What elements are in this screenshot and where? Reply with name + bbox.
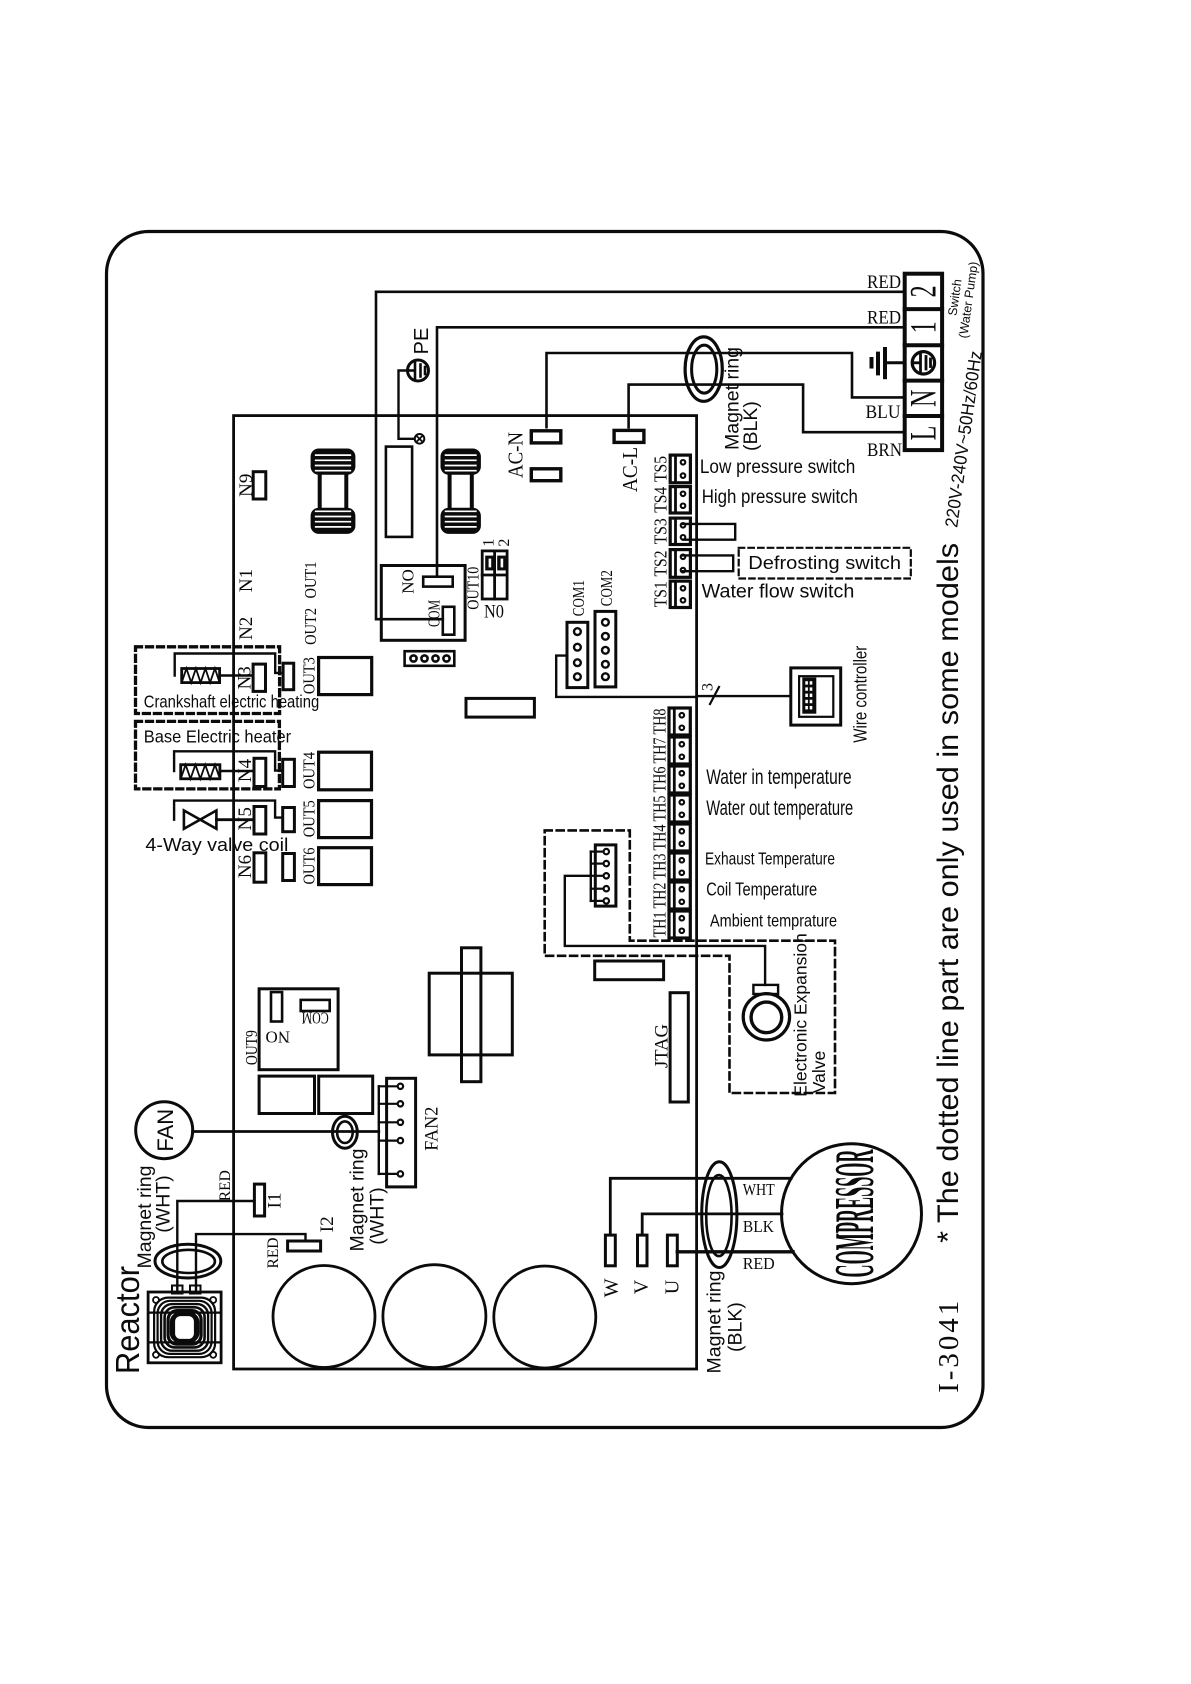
contact OUT3 [283,663,294,690]
connector N9 [253,472,266,499]
svg-text:V: V [631,1279,653,1294]
component rect C [259,1076,314,1113]
svg-text:TS1: TS1 [651,581,671,607]
contact OUT6 [283,854,295,881]
svg-text:(BLK): (BLK) [725,1302,747,1352]
svg-text:Coil Temperature: Coil Temperature [706,879,817,900]
compressor circle [782,1144,922,1284]
jumper block [482,551,507,599]
5-pin leads [591,849,609,904]
wire valve loop OUT5 [174,801,283,820]
wire heater to N4 [220,770,254,772]
wire to wire controller [697,695,791,697]
relay OUT5 [319,801,372,838]
border frame [107,232,984,1428]
PCB main board outline [234,416,697,1369]
svg-text:JTAG: JTAG [652,1024,673,1068]
svg-text:3: 3 [700,683,717,691]
svg-text:NO: NO [266,1028,291,1047]
svg-text:2: 2 [902,285,944,297]
wire heater loop OUT3 [175,654,283,676]
connector N6 [254,853,266,882]
svg-text:RED: RED [867,272,901,293]
connector TH3 [669,853,690,880]
connector TH1 [669,911,690,938]
wire BLU from AC-N to terminal N [547,353,905,427]
PE earth symbol [408,360,429,381]
svg-text:Base Electric heater: Base Electric heater [144,727,291,747]
svg-text:N5: N5 [235,807,256,830]
screw terminal [415,434,425,444]
earth symbol at terminal block [872,349,905,377]
svg-text:Magnet ring: Magnet ring [347,1149,369,1252]
label COMPRESSOR [825,1149,887,1277]
svg-text:(WHT): (WHT) [153,1175,175,1232]
svg-text:N: N [902,390,944,407]
svg-text:Water out temperature: Water out temperature [706,797,853,820]
svg-text:1: 1 [481,539,498,547]
svg-text:BLU: BLU [866,402,901,423]
reactor component [148,1286,221,1363]
heatsink bar [462,948,481,1082]
magnet ring (WHT) small [333,1116,358,1148]
svg-text:WHT: WHT [743,1180,775,1199]
svg-text:(BLK): (BLK) [740,401,762,451]
svg-text:RED: RED [265,1238,282,1269]
wire FAN to FAN2 [193,1130,379,1133]
svg-text:Exhaust Temperature: Exhaust Temperature [705,848,835,868]
svg-text:Low pressure switch: Low pressure switch [700,457,855,478]
wire RED to terminal 2 and down to OUT10 COM [376,292,905,619]
connector TH5 [669,795,690,822]
connector N5 [254,807,266,835]
wire PE to board screw [399,371,415,439]
connector N3 [253,664,265,691]
TS3 switch loop [683,524,735,540]
connector TH8 [669,708,690,735]
svg-text:(WHT): (WHT) [367,1187,389,1244]
wire 5-pin to EEV [565,876,765,985]
relay OUT6 [319,848,372,885]
dashed box crankshaft electric heating [136,647,280,714]
svg-text:BRN: BRN [867,440,902,461]
dashed box sensor group and EEV [545,830,835,1093]
capacitor circle 1 [273,1266,375,1368]
svg-text:TH1: TH1 [650,912,670,938]
svg-text:TS5: TS5 [651,456,671,482]
relay OUT3 [319,658,372,695]
label Magnet ring (BLK) bottom [704,1271,747,1374]
svg-text:L: L [902,426,944,441]
svg-text:OUT5: OUT5 [300,800,319,837]
contact OUT5 [283,808,295,832]
terminal W [605,1235,615,1266]
label Magnet ring (WHT) left [134,1166,175,1269]
wire I2 to reactor [196,1234,306,1292]
svg-text:OUT10: OUT10 [464,567,483,610]
svg-text:FAN2: FAN2 [422,1107,443,1151]
relay OUT9 box [259,989,338,1070]
svg-text:PE: PE [411,328,433,355]
svg-text:TH3: TH3 [650,853,670,879]
svg-text:COM1: COM1 [569,580,588,616]
svg-text:TH2: TH2 [650,883,670,909]
connector TS5 [670,455,690,483]
svg-text:OUT6: OUT6 [300,848,319,885]
svg-text:Water flow switch: Water flow switch [702,581,855,602]
heater element base [181,765,220,779]
svg-text:COMPRESSOR: COMPRESSOR [825,1149,887,1277]
FAN2 pins [379,1084,403,1177]
label Magnet ring (WHT) right [347,1149,389,1252]
capacitor circle 2 [383,1265,486,1368]
wire BRN from AC-L to terminal L [629,385,905,433]
wire V to compressor [642,1214,782,1235]
svg-text:TH6: TH6 [650,766,670,792]
svg-text:TH4: TH4 [650,824,670,850]
svg-text:TS2: TS2 [651,551,671,577]
svg-text:W: W [601,1278,623,1297]
svg-text:COM: COM [425,600,444,627]
svg-text:Valve: Valve [809,1051,829,1093]
wire valve to N5 [216,818,254,821]
svg-text:OUT9: OUT9 [242,1030,261,1065]
terminal block L N PE 1 2 [905,274,942,450]
svg-text:AC-L: AC-L [618,447,642,492]
dashed box base electric heater [136,721,280,789]
connector TS3 [670,518,690,544]
OUT9 NO contact [271,992,282,1021]
svg-text:N9: N9 [236,474,257,497]
svg-text:COM2: COM2 [597,570,616,606]
label Magnet ring (BLK) top [722,347,763,451]
electronic expansion valve symbol [743,985,789,1040]
OUT10 NO contact [423,577,453,587]
svg-text:BLK: BLK [743,1217,775,1236]
heater element crankshaft [182,669,220,683]
svg-text:Water in temperature: Water in temperature [706,766,851,789]
svg-text:RED: RED [743,1254,775,1273]
label Switch (Water Pump) [946,261,981,340]
connector I2 [288,1241,321,1251]
svg-text:Electronic Expansion: Electronic Expansion [791,933,811,1096]
connector 5-pin sensor [591,845,616,906]
component rect D [319,1076,373,1113]
terminal labels 2 1 N L [902,285,944,440]
svg-text:TH5: TH5 [650,795,670,821]
4-way valve symbol [184,811,217,829]
svg-text:N2: N2 [236,617,257,640]
svg-text:* The dotted line part are onl: * The dotted line part are only used in … [932,543,965,1243]
svg-text:COM: COM [302,1009,329,1028]
heatsink rect [429,973,512,1055]
svg-text:TS4: TS4 [651,487,671,513]
terminal earth cell symbol [912,352,934,374]
capacitor circle 3 [494,1266,596,1368]
connector COM2 [595,611,616,687]
connector TH6 [669,766,690,793]
wire I1 to reactor [177,1201,254,1292]
svg-text:OUT1: OUT1 [301,562,320,599]
svg-text:N6: N6 [235,855,256,878]
svg-text:OUT3: OUT3 [300,657,319,694]
OUT9 COM contact [301,1000,330,1011]
svg-text:N3: N3 [235,666,256,689]
magnet ring (WHT) reactor [155,1244,221,1278]
inductor coil L1 [312,450,355,533]
terminal V [638,1235,648,1266]
svg-text:AC-N: AC-N [504,432,528,478]
svg-text:Defrosting switch: Defrosting switch [748,553,901,573]
svg-text:2: 2 [496,539,513,547]
svg-text:NO: NO [399,569,418,594]
component tall rect [386,447,412,537]
svg-text:N4: N4 [235,758,256,782]
svg-text:N0: N0 [484,602,504,623]
wire heater loop OUT4 [174,751,283,771]
connector I1 [254,1184,264,1216]
svg-text:TH8: TH8 [650,708,670,734]
svg-text:U: U [662,1279,684,1294]
connector TS1 [670,581,690,607]
magnet ring (BLK) on AC wires [685,337,722,401]
slash 3-core mark [710,687,719,704]
label Electronic Expansion Valve [791,933,830,1096]
svg-text:High pressure switch: High pressure switch [702,487,858,508]
svg-text:RED: RED [217,1170,234,1201]
svg-text:Ambient temprature: Ambient temprature [710,911,837,931]
JTAG connector [670,993,688,1102]
wire heater to N3 [220,674,254,676]
svg-text:OUT2: OUT2 [301,608,320,645]
connector FAN2 [379,1078,416,1187]
svg-text:I1: I1 [265,1192,286,1208]
component rect A [595,961,664,980]
connector TS4 [670,487,690,513]
wire controller box [791,668,841,725]
inductor coil L2 [442,450,480,533]
connector TS2 [670,550,690,578]
relay OUT4 [319,752,372,790]
wire U to compressor [677,1250,793,1253]
svg-text:Wire controller: Wire controller [850,646,871,743]
terminal U [667,1235,677,1266]
connector TH4 [669,824,690,851]
FAN motor circle [136,1102,193,1159]
wire controller icon pins [805,681,812,709]
connector AC-L [614,430,644,442]
connector N4 [254,758,266,786]
relay OUT10 box [381,566,465,641]
svg-text:Crankshaft electric heating: Crankshaft electric heating [144,692,319,712]
wire COM1 to edge [556,656,696,697]
OUT10 COM contact [443,607,455,635]
connector TH7 [669,737,690,764]
svg-text:N1: N1 [236,569,257,592]
connector AC-N [531,431,561,443]
svg-text:OUT4: OUT4 [300,752,319,789]
wire W to compressor [610,1178,791,1235]
wire RED to terminal 1 and down to OUT10 NO [437,327,905,576]
connector COM1 [567,622,588,687]
magnet ring (BLK) compressor [702,1162,737,1268]
svg-text:TS3: TS3 [651,518,671,544]
svg-text:Magnet ring: Magnet ring [704,1271,726,1374]
svg-text:I-3041: I-3041 [933,1301,965,1393]
contact OUT4 [283,759,295,786]
svg-text:Reactor: Reactor [109,1266,146,1374]
svg-text:FAN: FAN [153,1109,178,1152]
TS2 switch loop [683,555,733,571]
svg-text:TH7: TH7 [650,737,670,763]
component rect B [466,698,534,717]
connector TH2 [669,882,690,909]
svg-text:1: 1 [902,321,944,333]
svg-text:RED: RED [867,308,901,329]
connector 4-pin [405,651,455,666]
dashed box defrosting switch [739,548,911,579]
svg-text:I2: I2 [317,1216,338,1232]
